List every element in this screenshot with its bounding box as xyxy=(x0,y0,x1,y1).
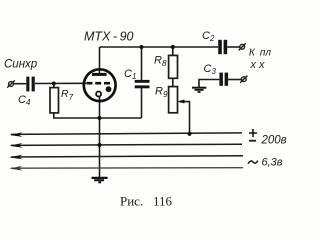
label - polarity xyxy=(249,140,256,142)
arrow bus line 4 xyxy=(9,166,22,171)
label ~ AC xyxy=(248,161,258,164)
wire cathode vertical to ground xyxy=(99,96,101,177)
tube anode bar xyxy=(92,73,107,76)
svg-text:Кпл: Кпл xyxy=(249,48,271,59)
svg-text:МТХ-90: МТХ-90 xyxy=(84,30,134,44)
wire R7 top lead xyxy=(53,84,55,88)
wire W1 cathode bus xyxy=(53,117,142,119)
node junction anode/C1 xyxy=(140,45,144,49)
node junction W1/cathode xyxy=(98,116,102,120)
svg-text:хх: хх xyxy=(250,59,266,71)
capacitor C2 xyxy=(218,40,227,54)
wire R7 bottom lead xyxy=(53,113,55,118)
wire C4 to tube grid xyxy=(35,82,86,84)
terminal output C2 xyxy=(239,43,246,50)
tube grid dashes xyxy=(86,82,110,85)
svg-text:6,3в: 6,3в xyxy=(262,156,283,168)
capacitor C4 xyxy=(26,77,35,92)
ground at C3 xyxy=(192,88,206,92)
arrow bus line 3 xyxy=(9,155,22,160)
wire C1 top lead xyxy=(141,47,143,80)
wire anode lead up xyxy=(99,47,101,75)
resistor R9 (potentiometer) xyxy=(169,87,178,113)
node junction wiper/bus1 xyxy=(187,132,191,136)
svg-text:С3: С3 xyxy=(204,63,217,76)
bus line 3 (~6.3V a) xyxy=(11,156,243,157)
svg-text:R7: R7 xyxy=(61,88,74,102)
wire C2 to terminal xyxy=(227,46,239,48)
wire R8 to R9 xyxy=(172,78,174,86)
tube V1 MTX-90 envelope xyxy=(84,69,116,101)
svg-text:С1: С1 xyxy=(124,68,136,81)
wire R8 top lead xyxy=(172,47,174,55)
node junction anode/R8 xyxy=(171,45,175,49)
svg-text:200в: 200в xyxy=(261,134,287,146)
wire input terminal to C4 xyxy=(14,83,27,85)
wire C3 ground corner to C3 xyxy=(199,80,219,88)
resistor R7 xyxy=(50,88,59,113)
svg-text:R8: R8 xyxy=(154,55,167,69)
bus line 4 (~6.3V b) xyxy=(11,167,243,170)
capacitor C3 xyxy=(219,73,228,86)
terminal output C3 xyxy=(240,76,247,83)
arrow bus line 1 xyxy=(9,132,22,137)
svg-text:Рис. 116: Рис. 116 xyxy=(120,194,172,209)
wire R9 wiper to bus line 1 xyxy=(180,102,190,134)
wire C1 bottom lead xyxy=(141,88,143,118)
svg-text:С2: С2 xyxy=(202,30,215,43)
resistor R8 xyxy=(169,55,178,78)
svg-text:С4: С4 xyxy=(18,94,31,107)
arrow bus line 2 xyxy=(9,143,22,148)
bus line 2 (-200V) xyxy=(11,144,242,145)
wiper arrow of R9 xyxy=(177,100,185,104)
wire C3 to terminal xyxy=(228,79,241,81)
node junction cathode/bus2 xyxy=(97,143,101,147)
svg-text:R9: R9 xyxy=(155,86,168,100)
node junction C4/R7 xyxy=(52,82,56,86)
bus line 1 (+200V) xyxy=(11,133,242,135)
terminal input Синхр xyxy=(7,80,15,87)
capacitor C1 xyxy=(135,80,150,88)
tube gas-fill dot xyxy=(106,86,112,92)
ground main xyxy=(92,178,108,182)
tube starter electrode circle xyxy=(96,92,101,97)
wire anode line to C2 xyxy=(100,46,219,48)
svg-text:Синхр: Синхр xyxy=(4,59,38,71)
label + polarity xyxy=(249,129,257,137)
